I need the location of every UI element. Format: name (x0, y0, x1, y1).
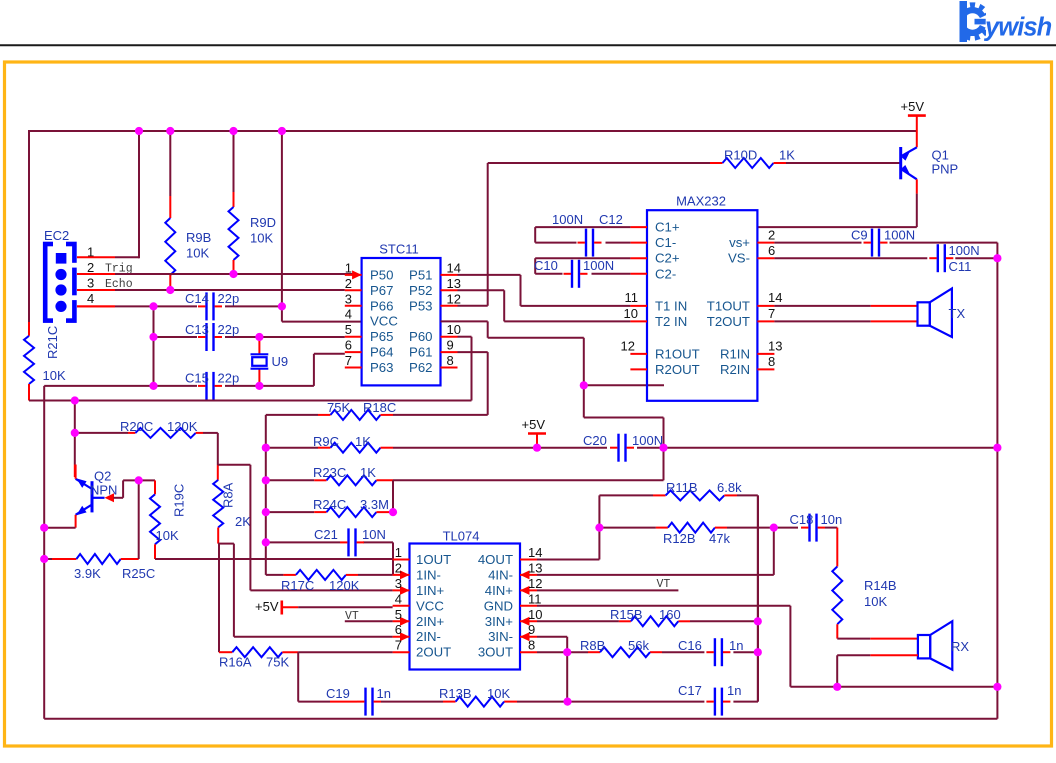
crystal U9 (251, 337, 269, 386)
wire bottom rail (44, 718, 997, 720)
resistor R20C (75, 428, 218, 438)
capacitor C18 (801, 514, 825, 542)
wire C13 row (154, 336, 345, 338)
capacitor C14 (198, 292, 222, 320)
STC11 pin names (370, 267, 433, 375)
svg-text:R23C: R23C (313, 465, 346, 480)
wire R16A drop (297, 652, 299, 701)
wire P52 to T2IN (458, 290, 631, 321)
svg-text:T1OUT: T1OUT (707, 298, 750, 313)
svg-text:GND: GND (484, 598, 513, 613)
svg-text:R12B: R12B (663, 531, 696, 546)
junction dot C16 right (754, 648, 762, 656)
svg-text:T2 IN: T2 IN (655, 314, 687, 329)
svg-text:10N: 10N (362, 527, 386, 542)
svg-text:10K: 10K (250, 231, 273, 246)
wire R8A to R16A (218, 544, 220, 653)
svg-text:1K: 1K (779, 148, 795, 163)
svg-text:P67: P67 (370, 283, 393, 298)
svg-text:T1 IN: T1 IN (655, 298, 687, 313)
wire P60 drop (458, 337, 472, 401)
label R18C (327, 400, 396, 415)
junction dots C13 row (149, 333, 263, 341)
svg-text:vs+: vs+ (729, 235, 750, 250)
svg-text:P53: P53 (409, 298, 432, 313)
capacitor C16 (706, 638, 730, 666)
svg-text:12: 12 (447, 291, 461, 306)
wire R25C riser (138, 480, 140, 559)
svg-text:R9B: R9B (186, 230, 211, 245)
power +5V Q1 (901, 99, 926, 147)
wire 3IN- column (537, 637, 567, 702)
wire Trig net (115, 273, 353, 275)
wire R15B row (537, 620, 758, 622)
svg-text:ywish: ywish (983, 14, 1052, 42)
header rule (0, 44, 1056, 46)
MAX232 pin names (655, 220, 750, 377)
junction dot C20 right (659, 444, 667, 452)
svg-text:2: 2 (395, 560, 402, 575)
svg-text:C13: C13 (185, 322, 209, 337)
svg-text:C14: C14 (185, 291, 209, 306)
svg-text:47k: 47k (709, 531, 730, 546)
svg-text:1n: 1n (377, 686, 391, 701)
svg-text:R18C: R18C (363, 400, 396, 415)
TL074 right stubs (520, 560, 537, 653)
wire Q2 emitter (44, 515, 75, 528)
svg-text:P60: P60 (409, 329, 432, 344)
label R14B (864, 578, 897, 609)
junction dot 3OUT node (563, 648, 571, 656)
label TL074 (443, 529, 480, 544)
junction dot C11 right (993, 254, 1001, 262)
speaker RX (918, 621, 952, 670)
svg-text:11: 11 (625, 290, 639, 305)
label R21C (45, 326, 60, 359)
svg-text:+5V: +5V (255, 599, 279, 614)
logo Keywish gear icon (948, 0, 996, 43)
svg-text:10K: 10K (487, 686, 510, 701)
wire vs+ row (774, 243, 997, 259)
label C10 (534, 258, 614, 273)
svg-text:1OUT: 1OUT (416, 552, 451, 567)
svg-text:R9C: R9C (313, 434, 339, 449)
svg-text:4: 4 (395, 591, 402, 606)
wire STC11 gnd jog (441, 321, 664, 447)
svg-text:1: 1 (395, 545, 402, 560)
svg-text:P52: P52 (409, 283, 432, 298)
svg-text:13: 13 (528, 560, 542, 575)
label R9C (313, 434, 371, 449)
svg-text:8: 8 (528, 638, 535, 653)
svg-text:2: 2 (345, 276, 352, 291)
label R24C (313, 497, 389, 512)
capacitor C12 (578, 229, 602, 257)
label R15B (610, 607, 681, 622)
power +5V C20 (522, 417, 547, 448)
svg-text:100N: 100N (884, 228, 915, 243)
svg-text:C11: C11 (949, 259, 972, 274)
svg-text:2IN+: 2IN+ (416, 614, 445, 629)
capacitor C9 (864, 229, 888, 257)
svg-text:R15B: R15B (610, 607, 643, 622)
TL074 right arrows (520, 570, 530, 641)
capacitor C13 (198, 323, 222, 351)
svg-text:R11B: R11B (666, 480, 698, 495)
svg-text:C12: C12 (599, 212, 623, 227)
svg-text:R2OUT: R2OUT (655, 362, 700, 377)
svg-text:R25C: R25C (122, 566, 155, 581)
wire bottom row (298, 495, 758, 701)
svg-text:TX: TX (949, 306, 966, 321)
wire R8A staple (218, 544, 392, 637)
svg-text:3.9K: 3.9K (74, 566, 101, 581)
svg-text:10: 10 (528, 607, 542, 622)
svg-text:22p: 22p (218, 322, 240, 337)
junction dot R24C right (389, 508, 397, 516)
wire Q1 collector (757, 179, 916, 227)
junction dot R12B left (595, 524, 603, 532)
EC2 pin numbers (87, 245, 94, 307)
TL074 pin names (416, 552, 513, 660)
svg-text:P66: P66 (370, 298, 393, 313)
power +5V TL074 (255, 599, 393, 615)
svg-text:11: 11 (528, 591, 542, 606)
svg-text:10: 10 (624, 306, 638, 321)
TL074 right numbers (528, 545, 542, 653)
label C20 (583, 433, 663, 448)
resistor R13B (456, 697, 505, 707)
wire C14 row (77, 305, 282, 307)
resistor R16A (219, 647, 393, 657)
label R9D (250, 215, 276, 246)
svg-text:Q2: Q2 (94, 469, 111, 484)
svg-text:MAX232: MAX232 (676, 194, 726, 209)
junction dots C15 row (149, 382, 263, 390)
wire 1IN+ branch (218, 465, 393, 591)
wire R23C to C20 (393, 448, 664, 512)
transistor Q2 (76, 478, 105, 515)
label C19 (326, 686, 391, 701)
svg-text:R1IN: R1IN (720, 346, 750, 361)
svg-text:14: 14 (528, 545, 542, 560)
svg-text:10K: 10K (864, 594, 887, 609)
svg-text:7: 7 (395, 638, 402, 653)
MAX232 right stubs (757, 243, 774, 370)
svg-text:C10: C10 (534, 258, 558, 273)
wire C2 loop (535, 258, 630, 274)
label Q1 (932, 148, 959, 177)
svg-text:9: 9 (528, 622, 535, 637)
svg-text:P61: P61 (409, 345, 432, 360)
svg-text:P62: P62 (409, 360, 432, 375)
label TX (949, 306, 966, 321)
TL074 left arrows (400, 570, 410, 641)
wire GND pin11 (537, 606, 997, 687)
label C14 (185, 291, 239, 306)
EC2 pin3 circle (55, 284, 66, 295)
junction dot right rail mid (993, 444, 1001, 452)
svg-text:13: 13 (768, 339, 782, 354)
label R23C (313, 465, 376, 480)
svg-text:10K: 10K (156, 528, 179, 543)
EC2 pin4 circle (55, 301, 66, 312)
resistor R9B (165, 131, 175, 290)
svg-text:3OUT: 3OUT (478, 645, 513, 660)
wire cap column (153, 306, 155, 386)
label R20C (120, 419, 198, 434)
label R25C (74, 566, 155, 581)
wire Q2 collector column (74, 401, 76, 478)
svg-text:+5V: +5V (901, 99, 925, 114)
wire R20C to R8A (217, 433, 219, 465)
resistor R25C (44, 554, 139, 564)
svg-text:3: 3 (87, 276, 94, 291)
svg-text:R14B: R14B (864, 578, 897, 593)
capacitor C10 (564, 260, 588, 288)
svg-text:100N: 100N (949, 243, 980, 258)
svg-text:R9D: R9D (250, 215, 276, 230)
svg-text:13: 13 (447, 276, 461, 291)
resistor R19C (150, 480, 160, 559)
STC11 right pin numbers (447, 260, 461, 368)
label STC11 (379, 242, 419, 257)
svg-text:100N: 100N (583, 258, 614, 273)
wire P50 column to VCC (282, 131, 362, 322)
junction dot R25C left (40, 555, 48, 563)
svg-text:1n: 1n (727, 683, 741, 698)
svg-text:C2-: C2- (655, 266, 676, 281)
connector EC2 body (45, 240, 79, 325)
svg-text:VT: VT (657, 578, 671, 591)
label C12 (552, 212, 623, 227)
wire C15 row (44, 354, 345, 386)
svg-text:100N: 100N (552, 212, 583, 227)
IC U-STC11 box (362, 258, 441, 385)
wire P61 to R18C (458, 352, 488, 415)
STC11 pin1 arrow (352, 270, 362, 279)
junction dot bottom row (563, 698, 571, 706)
label R19C (156, 484, 187, 543)
svg-text:P63: P63 (370, 360, 393, 375)
svg-text:10: 10 (447, 322, 461, 337)
svg-text:STC11: STC11 (379, 242, 419, 257)
label C13 (185, 322, 239, 337)
svg-text:4IN-: 4IN- (488, 567, 513, 582)
wire R11B right column (757, 495, 759, 701)
resistor R18C (266, 410, 488, 420)
svg-text:22p: 22p (218, 371, 240, 386)
svg-text:100N: 100N (632, 433, 663, 448)
svg-text:R1OUT: R1OUT (655, 346, 700, 361)
capacitor C20 (610, 434, 634, 462)
label RX (951, 639, 969, 654)
svg-text:R2IN: R2IN (720, 362, 750, 377)
MAX232 left stubs (630, 227, 647, 369)
label C16 (678, 638, 743, 653)
label R13B (439, 686, 510, 701)
svg-text:R8A: R8A (221, 482, 236, 508)
resistor R9D (229, 131, 239, 274)
TL074 left numbers (395, 545, 402, 653)
label VT pin5 (345, 610, 359, 623)
label C17 (678, 683, 741, 698)
capacitor C15 (198, 372, 222, 400)
svg-text:7: 7 (345, 353, 352, 368)
label Echo (105, 278, 133, 291)
junction dot RX gnd (833, 683, 841, 691)
svg-text:2IN-: 2IN- (416, 629, 441, 644)
MAX232 pin numbers (621, 228, 783, 370)
svg-text:56k: 56k (628, 638, 649, 653)
label C15 (185, 371, 239, 386)
wire VT pin12 (537, 589, 678, 591)
svg-text:P51: P51 (409, 267, 432, 282)
speaker TX (918, 289, 952, 338)
svg-text:U9: U9 (272, 354, 289, 369)
resistor R10D (710, 158, 900, 168)
svg-text:C16: C16 (678, 638, 702, 653)
label U9 (272, 354, 289, 369)
svg-text:EC2: EC2 (44, 228, 69, 243)
wire EC2 pin1 riser (115, 131, 139, 258)
svg-text:R13B: R13B (439, 686, 472, 701)
wire right rail (996, 258, 998, 719)
svg-text:75K: 75K (266, 655, 289, 670)
resistor R11B (599, 490, 757, 500)
svg-text:120K: 120K (167, 419, 198, 434)
svg-text:1: 1 (345, 260, 352, 275)
TL074 left stubs (393, 560, 410, 653)
svg-text:C17: C17 (678, 683, 702, 698)
svg-text:R19C: R19C (172, 484, 187, 517)
wire VS- row (774, 257, 997, 259)
svg-text:6: 6 (395, 622, 402, 637)
svg-text:5: 5 (395, 607, 402, 622)
svg-text:RX: RX (951, 639, 969, 654)
junction dot Echo-R9B (166, 286, 174, 294)
svg-text:8: 8 (768, 354, 775, 369)
wire VT pin5 (345, 620, 393, 622)
svg-text:R8B: R8B (580, 638, 605, 653)
svg-text:14: 14 (768, 290, 782, 305)
wire P53 to R10D (458, 163, 711, 306)
svg-text:5: 5 (345, 322, 352, 337)
EC2 pin stubs (77, 257, 115, 306)
wire 4OUT riser (537, 495, 599, 559)
svg-text:1IN+: 1IN+ (416, 583, 445, 598)
wire R14B to RX (837, 638, 918, 640)
svg-text:3IN-: 3IN- (488, 629, 513, 644)
label VT pin12 (657, 578, 671, 591)
EC2 pin1 square (56, 253, 67, 264)
svg-text:R17C: R17C (281, 578, 314, 593)
wire R8B row (537, 651, 758, 653)
junction dot R20C left (71, 429, 79, 437)
svg-text:3.3M: 3.3M (360, 497, 389, 512)
label R21C value 10K (43, 368, 66, 383)
resistor R8A (213, 465, 223, 544)
resistor R12B (599, 523, 798, 533)
svg-text:75K: 75K (327, 400, 350, 415)
wire C21 row (266, 542, 393, 575)
svg-text:2: 2 (768, 228, 775, 243)
resistor R24C (266, 507, 393, 517)
Q2 base arrow (105, 493, 115, 502)
resistor R21C (24, 322, 34, 401)
capacitor C17 (706, 688, 730, 716)
svg-text:VCC: VCC (416, 598, 444, 613)
svg-text:C1+: C1+ (655, 220, 680, 235)
svg-text:VCC: VCC (370, 314, 398, 329)
label R16A (219, 655, 289, 670)
svg-text:3: 3 (345, 291, 352, 306)
svg-text:+5V: +5V (522, 417, 546, 432)
junction dot Trig-R9D (229, 270, 237, 278)
svg-text:3IN+: 3IN+ (485, 614, 514, 629)
svg-text:Q1: Q1 (932, 148, 949, 163)
wire top rail (29, 130, 917, 132)
svg-text:C21: C21 (314, 527, 338, 542)
resistor R8B (600, 647, 650, 657)
IC U-TL074 box (410, 544, 521, 670)
svg-text:4OUT: 4OUT (478, 552, 513, 567)
svg-text:R10D: R10D (724, 148, 757, 163)
label R8A (221, 482, 252, 529)
transistor Q1 (901, 147, 917, 179)
svg-text:6.8k: 6.8k (717, 480, 742, 495)
svg-text:1IN-: 1IN- (416, 567, 441, 582)
label C9 (851, 228, 915, 243)
resistor R15B (631, 616, 678, 626)
junction dot MAX232 gnd (580, 381, 588, 389)
junction dot emitter row (40, 524, 48, 532)
svg-text:C19: C19 (326, 686, 350, 701)
wire left column x44 (43, 386, 45, 719)
svg-text:160: 160 (659, 607, 681, 622)
label Trig (105, 263, 133, 276)
resistor R17C (266, 570, 393, 580)
STC11 left pin stubs (345, 275, 362, 368)
junction dot +5V C20 (533, 444, 541, 452)
svg-text:R20C: R20C (120, 419, 153, 434)
wire C1 loop (535, 227, 630, 243)
wire left rail upper (28, 130, 30, 322)
junction dot Q2 base node (135, 476, 143, 484)
capacitor C21 (340, 528, 364, 556)
svg-text:2: 2 (87, 260, 94, 275)
label R12B (663, 531, 730, 546)
svg-text:4: 4 (345, 307, 352, 322)
junction dot P60-row (71, 396, 79, 404)
svg-text:C15: C15 (185, 371, 209, 386)
junction dot R12B right (770, 524, 778, 532)
capacitor C11 (929, 244, 953, 272)
label C11 (949, 243, 980, 274)
label EC2 (44, 228, 69, 243)
STC11 right pin stubs (441, 275, 458, 368)
svg-text:4IN+: 4IN+ (485, 583, 514, 598)
svg-text:7: 7 (768, 306, 775, 321)
label R8B (580, 638, 649, 653)
resistor R9C (266, 443, 537, 453)
wire C20 row (537, 447, 997, 449)
wire Echo net (115, 289, 345, 291)
wire bus column (265, 415, 267, 575)
svg-text:R16A: R16A (219, 655, 252, 670)
svg-text:C2+: C2+ (655, 251, 680, 266)
svg-text:C1-: C1- (655, 235, 676, 250)
